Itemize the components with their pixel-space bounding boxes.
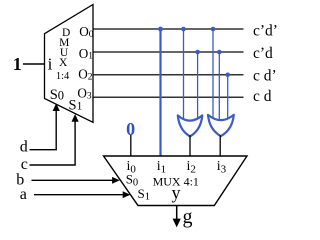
svg-text:S0: S0 [50, 87, 64, 103]
or-gate G1 (inputs c'd', c'd) [178, 115, 203, 136]
svg-text:X: X [59, 57, 68, 69]
wire i1 vertical from O0 line to MUX i1 [159, 29, 161, 156]
wire gate2 input A from O0 line [212, 29, 214, 123]
svg-text:1:4: 1:4 [56, 71, 70, 82]
svg-text:c’d: c’d [253, 45, 273, 62]
or-gate G2 (inputs c'd', c'd, c d') [208, 115, 234, 136]
wire O3 output line to c d [92, 96, 244, 98]
node junction dot on O0 line at x=213 [211, 27, 216, 32]
wire d to S0 arrow [30, 109, 57, 150]
wire constant 0 stub to MUX i0 [130, 135, 132, 156]
wire O2 output line to c d' [92, 74, 244, 76]
demux U1 body (DMUX 1:4) [45, 5, 94, 123]
wire a to mux s1 [34, 194, 124, 196]
node junction dot on O0 line at x=160.5 [158, 27, 163, 32]
arrowhead a into s1 [123, 191, 131, 198]
arrowhead d into S0 [53, 103, 60, 111]
wire gate2 input B from O1 line [218, 52, 220, 123]
wire O0 output line to c'd' [92, 28, 244, 30]
wire from 1 to demux i [23, 63, 45, 65]
wire gate1 input B from O1 line [197, 52, 199, 123]
wire c to S1 arrow [30, 120, 76, 165]
svg-text:c’d’: c’d’ [253, 23, 278, 40]
svg-text:S1: S1 [69, 97, 83, 113]
svg-text:1: 1 [13, 54, 22, 74]
node junction dot on O0 line at x=183.5 [181, 27, 186, 32]
wire b to mux s0 [32, 179, 114, 181]
svg-text:a: a [20, 186, 27, 203]
svg-text:c d: c d [253, 88, 272, 105]
node junction dot on O2 line at x=227.7 [225, 73, 230, 78]
wire gate2 input C from O2 line [227, 75, 229, 122]
arrowhead c into S1 [72, 114, 79, 122]
mux U2 body (MUX 4:1) [104, 156, 248, 206]
arrowhead b into s0 [112, 177, 120, 184]
svg-text:0: 0 [126, 119, 135, 139]
node junction dot on O1 line at x=219.3 [217, 50, 222, 55]
wire y output to g [176, 206, 178, 221]
svg-text:g: g [183, 206, 193, 228]
wire O1 output line to c'd [92, 51, 244, 53]
svg-text:y: y [172, 183, 181, 203]
svg-text:d: d [20, 139, 28, 156]
arrowhead output g [173, 219, 181, 228]
wire gate1 input A from O0 line [183, 29, 185, 123]
node junction dot on O1 line at x=197.6 [195, 50, 200, 55]
wire gate1 output to MUX i2 [189, 135, 191, 156]
svg-text:c d’: c d’ [253, 68, 277, 85]
svg-text:i: i [48, 54, 53, 73]
wire gate2 output to MUX i3 [219, 135, 221, 156]
